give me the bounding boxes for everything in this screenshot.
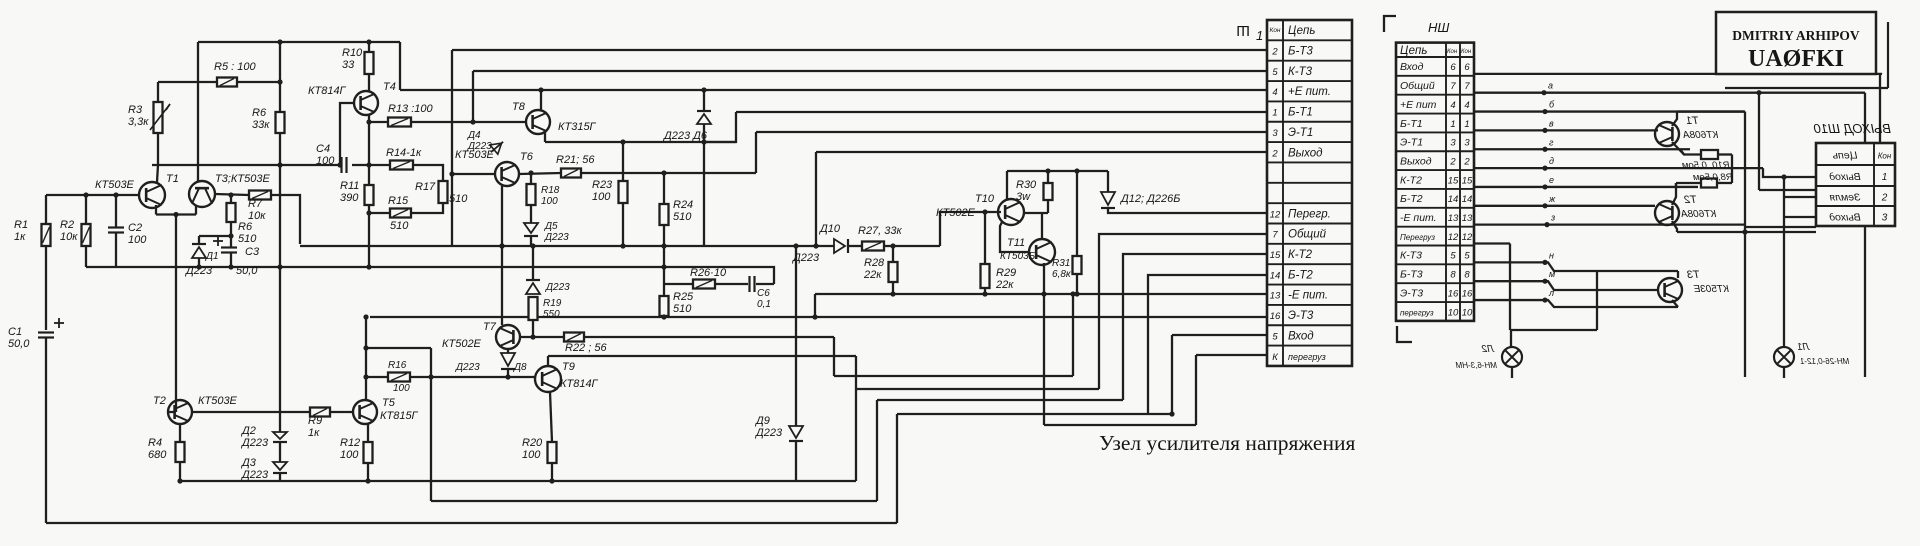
resistor R31 xyxy=(1073,171,1082,294)
wire bracket xyxy=(1509,244,1511,331)
svg-text:-Е пит.: -Е пит. xyxy=(1288,290,1328,302)
svg-text:МН-26-0,12-1: МН-26-0,12-1 xyxy=(1800,357,1849,366)
svg-text:15: 15 xyxy=(1448,175,1459,186)
svg-text:Д4: Д4 xyxy=(467,130,481,141)
svg-text:з: з xyxy=(1550,213,1555,223)
wire T2 collector xyxy=(192,411,310,413)
wire T1 collector up xyxy=(1672,112,1677,126)
wire row Vhod xyxy=(1172,334,1267,336)
plus sign C1 xyxy=(54,322,64,324)
wire T10 collector xyxy=(1006,171,1008,200)
svg-text:2: 2 xyxy=(1881,193,1888,204)
diode D12 xyxy=(1101,192,1115,208)
wire RC top xyxy=(663,246,665,267)
node row14 xyxy=(1542,203,1547,208)
svg-text:1к: 1к xyxy=(14,231,26,243)
svg-text:С2: С2 xyxy=(128,222,142,234)
svg-text:С6: С6 xyxy=(757,288,770,299)
wire lamp L1 bottom xyxy=(1783,367,1785,378)
node R5 right xyxy=(277,79,282,84)
svg-text:К-Т2: К-Т2 xyxy=(1288,249,1313,261)
svg-text:Д223: Д223 xyxy=(455,362,480,373)
node row15 xyxy=(1542,184,1547,189)
label R7 10k xyxy=(248,198,266,222)
svg-text:Б-Т2: Б-Т2 xyxy=(1400,193,1423,205)
wire R21 to E-T1 xyxy=(581,172,756,174)
wire R6 column down xyxy=(279,133,281,432)
resistor R8 out xyxy=(1701,179,1717,188)
resistor R18 xyxy=(527,184,536,205)
svg-text:50,0: 50,0 xyxy=(8,338,30,350)
wire R18 branch xyxy=(530,173,532,184)
resistor R5 xyxy=(217,78,237,87)
transistor T8 xyxy=(526,110,550,134)
svg-text:14: 14 xyxy=(1270,270,1281,281)
node D6 top xyxy=(701,87,706,92)
wire T3 emitter xyxy=(195,206,197,215)
svg-text:510: 510 xyxy=(673,303,692,315)
node vyhod bus xyxy=(813,243,818,248)
label R31 6,8k xyxy=(1052,258,1072,280)
svg-text:КТ814Г: КТ814Г xyxy=(308,85,347,97)
node R4 bottom xyxy=(177,478,182,483)
svg-text:С3: С3 xyxy=(245,246,260,258)
svg-text:б: б xyxy=(1549,100,1555,110)
wire T7 top column xyxy=(501,246,503,325)
svg-text:Т3;КТ503Е: Т3;КТ503Е xyxy=(215,173,270,185)
resistor R8b xyxy=(227,203,236,222)
svg-text:Д10: Д10 xyxy=(818,223,841,235)
wire bus K-T3 xyxy=(473,70,1267,72)
wire row16 E-T3 xyxy=(1474,300,1678,307)
label R9 1k xyxy=(308,415,322,439)
label R4 680 xyxy=(148,437,167,461)
svg-text:R9: R9 xyxy=(308,415,322,427)
wire x1196 drop xyxy=(1195,355,1197,425)
svg-text:8: 8 xyxy=(1450,270,1456,281)
svg-text:КТ815Г: КТ815Г xyxy=(380,410,419,422)
label R3 3,3k xyxy=(128,104,149,128)
node C3 top xyxy=(228,233,233,238)
wire y481 rail xyxy=(180,480,856,482)
node y267 x231 xyxy=(228,264,233,269)
node y142 x623 xyxy=(620,139,625,144)
svg-text:R21; 56: R21; 56 xyxy=(556,154,595,166)
corner bracket top xyxy=(1384,16,1396,32)
wire R8 left lead xyxy=(1676,182,1701,184)
svg-text:м: м xyxy=(1549,269,1555,279)
svg-text:3: 3 xyxy=(1272,128,1278,139)
wire y330 xyxy=(1510,329,1597,331)
svg-text:Л2: Л2 xyxy=(1481,344,1495,355)
resistor R21 xyxy=(561,169,581,178)
wire row K pereg xyxy=(1196,354,1267,356)
diode D7 xyxy=(526,280,540,294)
wire T2 collector up xyxy=(1672,183,1676,205)
svg-text:Цепь: Цепь xyxy=(1288,25,1315,37)
svg-text:R2: R2 xyxy=(60,219,74,231)
wire R11 bottom xyxy=(368,205,370,267)
wire D9 column xyxy=(795,246,797,426)
wire R3 bottom xyxy=(157,133,159,165)
wire y337 R22 east xyxy=(584,336,834,338)
diode D3 xyxy=(273,462,287,473)
wire row -Epit xyxy=(815,293,1267,295)
diode D4 diagonal xyxy=(487,137,507,156)
resistor R15 xyxy=(390,209,411,218)
label D5 D223 xyxy=(544,221,569,243)
node R29 bottom xyxy=(982,291,987,296)
table Sh1 text xyxy=(1270,25,1331,363)
wire D6 column top xyxy=(703,90,705,111)
svg-text:10к: 10к xyxy=(60,231,78,243)
wire R15 lead xyxy=(369,212,390,214)
svg-text:Т1: Т1 xyxy=(1686,115,1699,127)
svg-text:Т9: Т9 xyxy=(562,361,575,373)
node x1759 row7 xyxy=(1756,90,1761,95)
transistor T6 xyxy=(495,162,519,186)
svg-text:е: е xyxy=(1549,175,1554,185)
wire x834 xyxy=(833,337,835,376)
resistor R11 xyxy=(365,185,374,205)
svg-text:Т7: Т7 xyxy=(483,321,497,333)
svg-text:10: 10 xyxy=(1462,307,1473,318)
svg-text:в: в xyxy=(1549,118,1554,128)
wire x856 drop xyxy=(855,356,857,481)
transistor T9 xyxy=(535,366,561,392)
wire row obshiy xyxy=(1099,234,1267,389)
wire R2 branch xyxy=(85,195,87,224)
wire row K-T2 xyxy=(1123,254,1267,400)
svg-text:Т4: Т4 xyxy=(383,81,396,93)
resistor R22 xyxy=(564,333,584,342)
node y42 x280 xyxy=(277,39,282,44)
wire R6-510 branch xyxy=(230,195,232,203)
svg-text:0,1: 0,1 xyxy=(757,299,771,310)
resistor R26 xyxy=(664,280,748,289)
resistor R9 xyxy=(310,408,330,417)
node D7 top xyxy=(530,243,535,248)
wire bus B-T3 drop xyxy=(451,50,453,246)
diode D8 xyxy=(501,353,515,369)
node R28 top xyxy=(890,243,895,248)
svg-text:2: 2 xyxy=(1271,47,1278,58)
node R23 bottom xyxy=(620,243,625,248)
wire T2 emitter down xyxy=(1672,221,1677,232)
svg-text:1: 1 xyxy=(1272,108,1277,119)
wire T3 collector xyxy=(215,194,249,195)
wire D12 to row12 xyxy=(1108,208,1267,213)
capacitor C2 xyxy=(108,228,124,233)
svg-text:Д8: Д8 xyxy=(513,362,527,373)
wire row15 K-T2 xyxy=(1474,186,1698,188)
svg-text:Земля: Земля xyxy=(1829,192,1860,204)
node R2 top xyxy=(83,192,88,197)
wire T11 emitter xyxy=(1043,263,1045,294)
transistor T11 xyxy=(1029,239,1055,265)
label R20 100 xyxy=(522,437,543,461)
node row1 xyxy=(1542,128,1547,133)
svg-text:Т5: Т5 xyxy=(382,397,396,409)
svg-text:Д223: Д223 xyxy=(545,282,570,293)
node y267 x280 xyxy=(277,264,282,269)
node R24 bottom xyxy=(661,243,666,248)
svg-text:Т11: Т11 xyxy=(1007,237,1025,249)
svg-text:МН-6,3-НМ: МН-6,3-НМ xyxy=(1455,361,1497,370)
svg-text:С4: С4 xyxy=(316,143,330,155)
svg-text:R28: R28 xyxy=(864,257,885,269)
wire D2 to D3 xyxy=(279,442,281,462)
svg-text:Д12; Д226Б: Д12; Д226Б xyxy=(1119,193,1180,205)
svg-text:12: 12 xyxy=(1270,209,1281,220)
resistor R4 xyxy=(176,442,185,462)
svg-text:3: 3 xyxy=(1882,213,1888,224)
svg-text:50,0: 50,0 xyxy=(236,265,258,277)
svg-text:К-Т2: К-Т2 xyxy=(1400,174,1422,186)
node R12 bottom xyxy=(365,478,370,483)
wire C3 bottom xyxy=(230,253,232,267)
node y142 x704 xyxy=(701,139,706,144)
wire lamp L2 bottom xyxy=(1511,367,1513,378)
svg-text:13: 13 xyxy=(1270,291,1281,302)
svg-text:2: 2 xyxy=(1449,156,1456,167)
wire R25 bottom xyxy=(663,316,665,318)
resistor R28 xyxy=(889,246,898,294)
label R23 100 xyxy=(592,179,613,203)
svg-text:R18: R18 xyxy=(541,185,560,196)
wire y389 xyxy=(856,388,1099,390)
node y267 x369 xyxy=(366,264,371,269)
label D9 D223 xyxy=(754,415,783,439)
wire T1 emitter lead xyxy=(1672,142,1684,155)
wire R14 lead xyxy=(369,164,390,166)
label R11 390 xyxy=(340,180,359,204)
wire row1 B-T1 xyxy=(1474,129,1658,131)
connector table Sh10 xyxy=(1816,143,1895,226)
svg-text:6,8к: 6,8к xyxy=(1052,269,1072,280)
svg-text:КТ502Е: КТ502Е xyxy=(936,207,976,219)
wire D8 to base line xyxy=(507,369,509,377)
label R12 100 xyxy=(340,437,360,461)
svg-text:Перегруз: Перегруз xyxy=(1400,233,1435,242)
node y165 x280 xyxy=(277,162,282,167)
wire D1 bottom xyxy=(198,258,200,267)
svg-text:R20: R20 xyxy=(522,437,543,449)
wire C2 bottom xyxy=(115,233,117,267)
wire x1073 up xyxy=(1072,294,1074,376)
svg-text:DMITRIY ARHIPOV: DMITRIY ARHIPOV xyxy=(1732,28,1860,43)
resistor R13 xyxy=(388,118,411,127)
svg-text:Цепь: Цепь xyxy=(1400,45,1427,57)
transistor T5 xyxy=(353,400,377,424)
node row2 xyxy=(1542,166,1547,171)
svg-text:Б-Т2: Б-Т2 xyxy=(1288,269,1313,281)
svg-text:Д223: Д223 xyxy=(467,141,492,152)
svg-text:12: 12 xyxy=(1448,232,1459,243)
wire R7 right bend xyxy=(271,195,300,244)
svg-text:R31: R31 xyxy=(1052,258,1070,269)
wire R6b to C3 xyxy=(230,222,232,248)
svg-text:КТ503Е: КТ503Е xyxy=(198,395,238,407)
transistor T2 out xyxy=(1655,201,1679,225)
label R1 1k xyxy=(14,219,28,243)
node x431 y377 xyxy=(428,374,433,379)
svg-text:R10, 0,5ом: R10, 0,5ом xyxy=(1682,160,1730,171)
wire emitter join xyxy=(156,213,196,215)
svg-text:перегруз: перегруз xyxy=(1288,352,1326,362)
node R20 bottom xyxy=(549,478,554,483)
transistor T7 xyxy=(496,325,520,349)
wire T11 emitter down xyxy=(1043,294,1045,425)
svg-text:1к: 1к xyxy=(308,427,320,439)
svg-text:R24: R24 xyxy=(673,199,693,211)
node T5 col y377 xyxy=(363,374,368,379)
wire T6 base xyxy=(452,173,495,175)
svg-text:Выход: Выход xyxy=(1288,147,1323,159)
wire C2 branch xyxy=(115,195,117,227)
transistor T1 xyxy=(139,182,165,208)
wire T1 collector up xyxy=(157,165,158,182)
node y317 x815 xyxy=(812,314,817,319)
label R6 510 xyxy=(238,221,257,245)
svg-text:R12: R12 xyxy=(340,437,360,449)
svg-text:Кон: Кон xyxy=(1878,152,1892,161)
svg-text:R1: R1 xyxy=(14,219,28,231)
wire row13 -Epit xyxy=(1474,223,1744,225)
resistor R20 xyxy=(548,442,557,463)
title box shadow xyxy=(1887,22,1889,88)
svg-text:R3: R3 xyxy=(128,104,143,116)
svg-text:Л1: Л1 xyxy=(1797,342,1810,353)
svg-text:Общий: Общий xyxy=(1288,229,1327,241)
label R28 22k xyxy=(863,257,885,281)
svg-text:Цепь: Цепь xyxy=(1832,150,1857,162)
resistor R10 out xyxy=(1701,150,1718,159)
node R19 y337 xyxy=(530,334,535,339)
svg-text:R13 :100: R13 :100 xyxy=(388,103,434,115)
wire row15 link xyxy=(1675,183,1677,187)
svg-text:2: 2 xyxy=(1463,156,1470,167)
svg-text:Д5: Д5 xyxy=(544,221,558,232)
wire C1 branch xyxy=(45,195,47,224)
label D2 D223 xyxy=(240,425,269,449)
svg-text:Вход: Вход xyxy=(1400,61,1424,73)
svg-text:100: 100 xyxy=(522,449,541,461)
svg-text:Э-Т3: Э-Т3 xyxy=(1400,287,1423,299)
wire T3 collector lead xyxy=(1677,271,1679,278)
svg-text:R17: R17 xyxy=(415,181,436,193)
resistor R3 xyxy=(154,102,163,133)
svg-text:R15: R15 xyxy=(388,195,409,207)
svg-text:Общий: Общий xyxy=(1400,80,1435,92)
wire Sh10 row2 stub xyxy=(1784,196,1816,198)
node R29 top xyxy=(982,209,987,214)
wire T9 collector xyxy=(547,356,549,366)
svg-text:7: 7 xyxy=(1464,81,1470,92)
resistor R19 xyxy=(529,297,538,320)
svg-text:КТ502Е: КТ502Е xyxy=(442,338,482,350)
svg-text:Т10: Т10 xyxy=(975,193,995,205)
wire row12 stub xyxy=(1474,242,1510,244)
node row5 xyxy=(1542,260,1547,265)
svg-text:Э-Т1: Э-Т1 xyxy=(1288,127,1313,139)
node x1073 y294 xyxy=(1070,291,1075,296)
wire x897 drop xyxy=(896,414,898,523)
svg-text:R16: R16 xyxy=(388,360,407,371)
svg-text:100: 100 xyxy=(316,155,335,167)
resistor R12 xyxy=(364,442,373,463)
svg-text:10: 10 xyxy=(1448,307,1459,318)
plus sign C3 xyxy=(213,240,223,242)
svg-text:КТ315Г: КТ315Г xyxy=(558,121,597,133)
wire x1865 drop xyxy=(1864,93,1866,377)
svg-text:510: 510 xyxy=(390,220,409,232)
table NSh text xyxy=(1400,45,1473,318)
svg-text:R5 : 100: R5 : 100 xyxy=(214,61,256,73)
label R24 510 xyxy=(673,199,693,223)
wire common emitter down xyxy=(175,215,177,413)
svg-text:R8,0,5ом: R8,0,5ом xyxy=(1693,172,1733,183)
wire under Sh10b xyxy=(1677,231,1816,233)
wire R15 to R17 bottom xyxy=(411,203,443,213)
svg-text:16: 16 xyxy=(1448,288,1459,299)
wire D1 top lead xyxy=(198,236,200,244)
wire mid bus y246 xyxy=(300,245,834,247)
wire R18 to D5 xyxy=(530,205,532,223)
svg-text:15: 15 xyxy=(1270,250,1281,261)
title box xyxy=(1716,12,1876,74)
wire row6 Vhod xyxy=(1474,73,1882,75)
svg-text:R25: R25 xyxy=(673,291,694,303)
svg-text:100: 100 xyxy=(393,383,410,394)
node y317 x664 xyxy=(661,314,666,319)
corner bracket bottom xyxy=(1397,326,1412,342)
svg-text:Э-Т3: Э-Т3 xyxy=(1288,310,1314,322)
svg-text:Узел усилителя напряжения: Узел усилителя напряжения xyxy=(1099,431,1355,455)
svg-text:-Е пит.: -Е пит. xyxy=(1400,212,1437,224)
svg-text:Д223: Д223 xyxy=(240,469,269,481)
svg-text:15: 15 xyxy=(1462,175,1473,186)
svg-text:К-Т3: К-Т3 xyxy=(1288,66,1313,78)
wire frame right xyxy=(1759,74,1880,190)
resistor R1 xyxy=(42,224,51,246)
svg-text:Т2: Т2 xyxy=(1684,194,1697,206)
wire T9 base line xyxy=(431,376,536,378)
wire R14 to R17 xyxy=(413,165,443,181)
svg-text:КТ503Е: КТ503Е xyxy=(1693,284,1729,295)
wire bus E-T1 xyxy=(756,131,1267,133)
wire y142 xyxy=(545,141,736,143)
svg-text:2: 2 xyxy=(1271,148,1278,159)
svg-text:Т1: Т1 xyxy=(166,173,179,185)
diode D10 xyxy=(834,239,848,253)
wire R3 top xyxy=(157,82,159,102)
svg-text:510: 510 xyxy=(673,211,692,223)
node x369 y122 xyxy=(366,119,371,124)
svg-text:R26·10: R26·10 xyxy=(690,267,727,279)
svg-text:Т6: Т6 xyxy=(520,151,534,163)
wire under Sh10 xyxy=(1744,226,1816,228)
wire y348 link xyxy=(366,347,431,349)
wire T10 out wire xyxy=(1024,212,1048,214)
svg-text:Б-Т3: Б-Т3 xyxy=(1400,269,1423,281)
svg-text:Д223 Д6: Д223 Д6 xyxy=(662,130,708,142)
svg-text:+Е пит: +Е пит xyxy=(1400,99,1437,111)
svg-text:Д2: Д2 xyxy=(240,425,256,437)
svg-text:5: 5 xyxy=(1464,251,1470,262)
wire x1732 xyxy=(1731,155,1733,184)
svg-text:Ш: Ш xyxy=(1236,22,1250,39)
